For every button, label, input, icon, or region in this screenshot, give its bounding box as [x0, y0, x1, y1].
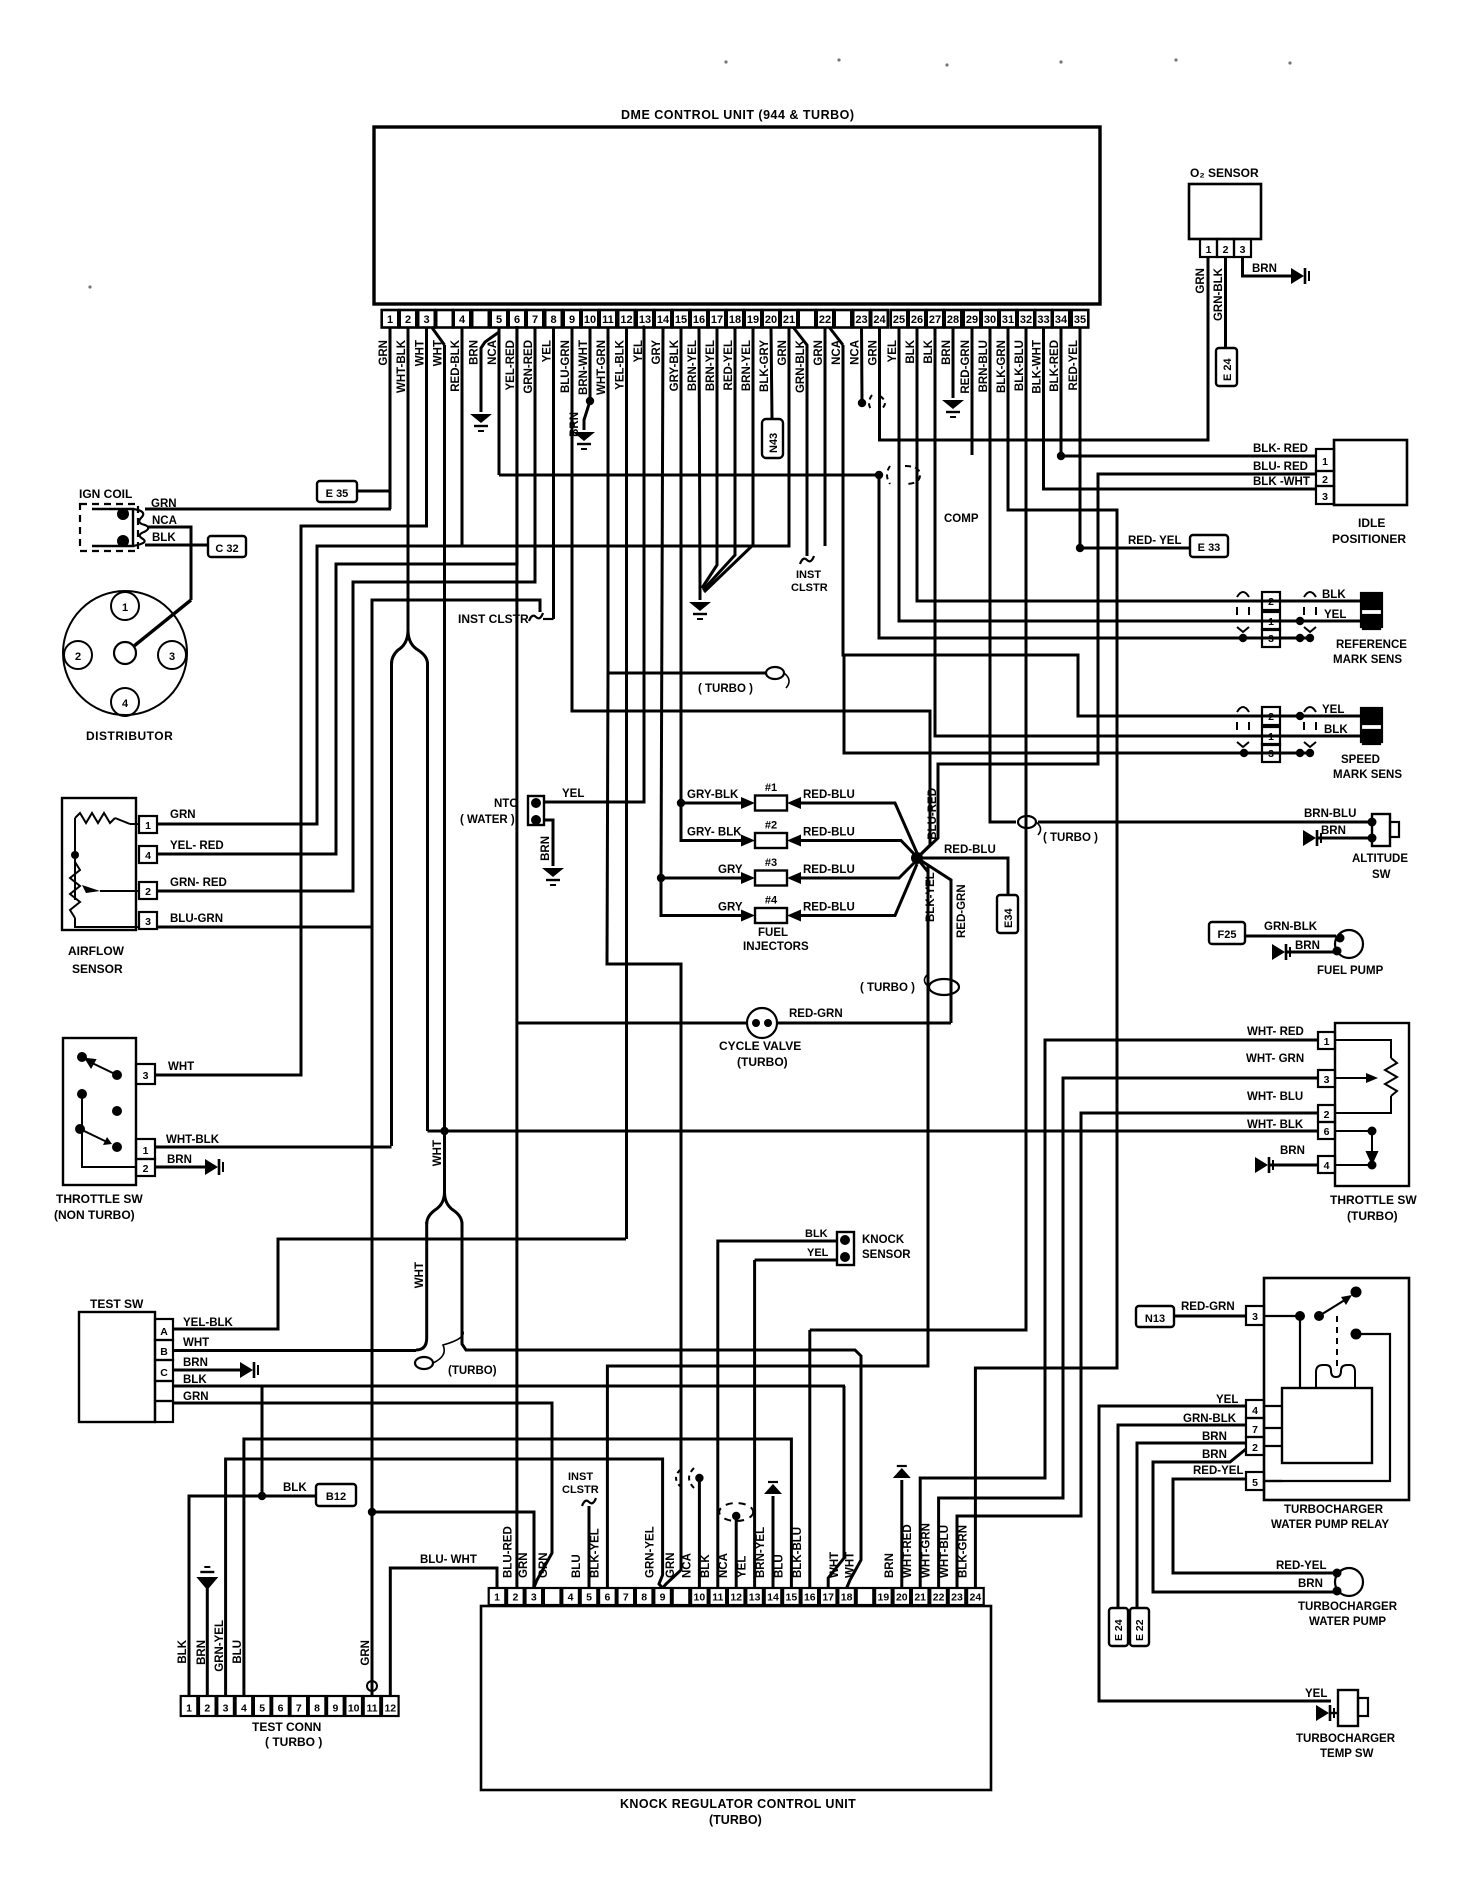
distributor rotor contact 4 [111, 688, 139, 716]
wire NCA to dashed connector COMP [499, 474, 876, 477]
svg-text:( WATER ): ( WATER ) [460, 814, 515, 826]
svg-text:E 33: E 33 [1198, 542, 1221, 554]
svg-text:GRN: GRN [868, 340, 880, 366]
svg-text:3: 3 [145, 916, 151, 928]
relay pin 3 box [1246, 1306, 1264, 1325]
svg-text:RED-BLU: RED-BLU [803, 864, 855, 876]
svg-text:IGN COIL: IGN COIL [79, 487, 132, 501]
shield symbols [1237, 707, 1249, 712]
svg-text:13: 13 [749, 1592, 761, 1604]
svg-text:GRY-BLK: GRY-BLK [669, 339, 681, 391]
small circle on pin 11 riser [367, 1681, 377, 1691]
svg-text:NCA: NCA [681, 1553, 693, 1578]
throttle switch upper contacts [77, 1052, 87, 1062]
wire BLK branch down to B12 [262, 1386, 316, 1496]
svg-text:BRN: BRN [884, 1553, 896, 1578]
wire DME pin 25 YEL to reference mark sensor [899, 327, 1300, 621]
svg-text:YEL: YEL [1305, 1688, 1327, 1700]
svg-text:BLU- RED: BLU- RED [1253, 461, 1308, 473]
wire DME pin 6 YEL-RED down to airflow sensor pin 4 [157, 327, 517, 854]
turbo throttle pin 1 [1318, 1032, 1335, 1049]
svg-text:11: 11 [712, 1592, 723, 1604]
svg-text:YEL-RED: YEL-RED [505, 340, 517, 390]
svg-text:2: 2 [1324, 1109, 1330, 1121]
star junction of injector wires [911, 852, 923, 864]
wire WHT-BLK left branch down to non-turbo throttle [390, 662, 393, 1146]
dashed arc at pin 23 connector [869, 395, 872, 411]
svg-text:GRN-YEL: GRN-YEL [214, 1620, 226, 1672]
svg-text:11: 11 [602, 314, 614, 326]
wire DME pin 30 BRN-BLU down to altitude switch with turbo break [990, 327, 1016, 822]
throttle pin 1 box [136, 1139, 155, 1159]
wire WHT left branch to test switch B with turbo break [425, 1222, 428, 1338]
svg-text:NCA: NCA [487, 340, 499, 365]
svg-text:7: 7 [296, 1703, 302, 1715]
wire altitude BRN-BLU segment [1038, 821, 1372, 824]
wire knock pin 6 BLK-YEL riser from 1366 run [607, 866, 928, 1588]
svg-text:WHT: WHT [414, 1262, 426, 1288]
IDLE POSITIONER box [1334, 440, 1407, 505]
wire knock pin 5 INST CLSTR stub [588, 1506, 591, 1588]
wire DME pin 18 RED-YEL diagonal to common ground [703, 327, 735, 590]
svg-text:1: 1 [186, 1703, 192, 1715]
turbo throttle internal resistor [1335, 1040, 1391, 1058]
svg-text:(TURBO): (TURBO) [737, 1055, 788, 1069]
svg-text:BRN: BRN [1298, 1578, 1323, 1590]
wire DME pin 33 BLK-WHT down to idle positioner pin 3 [1044, 327, 1317, 489]
svg-text:RED-BLU: RED-BLU [944, 844, 996, 856]
wire DME pin 7 GRN-RED down to airflow sensor pin 2 [157, 327, 535, 891]
svg-text:WHT-BLK: WHT-BLK [166, 1134, 220, 1146]
svg-text:YEL-BLK: YEL-BLK [183, 1317, 234, 1329]
DME control unit box [374, 127, 1100, 304]
svg-text:(NON TURBO): (NON TURBO) [54, 1208, 135, 1222]
svg-text:TEST CONN: TEST CONN [252, 1720, 321, 1734]
idle pin 3 [1316, 486, 1334, 504]
svg-text:12: 12 [384, 1703, 396, 1715]
wire turbo throttle pin 4 BRN ground [1270, 1164, 1318, 1167]
svg-text:GRN-RED: GRN-RED [523, 340, 535, 394]
svg-text:31: 31 [1002, 314, 1014, 326]
wire WHT-BLK right branch down to turbo throttle [426, 662, 429, 1131]
svg-text:RED-BLU: RED-BLU [803, 827, 855, 839]
svg-text:MARK SENS: MARK SENS [1333, 654, 1402, 666]
wire knock sensor BLK to knock pin 11 [718, 1241, 837, 1588]
wire DME pin 22 GRN down [824, 327, 827, 546]
svg-text:BLK-BLU: BLK-BLU [1014, 340, 1026, 391]
wire test BLK long run to knock pin 17 riser [173, 1385, 845, 1388]
wire altitude BRN to ground [1318, 837, 1372, 840]
svg-text:WHT: WHT [845, 1552, 857, 1578]
svg-text:SW: SW [1372, 869, 1391, 881]
svg-text:RED-YEL: RED-YEL [1068, 340, 1080, 390]
svg-text:BLK-YEL: BLK-YEL [589, 1528, 601, 1578]
svg-text:1: 1 [1322, 456, 1328, 468]
test sw pin B [155, 1340, 173, 1360]
svg-text:1: 1 [494, 1592, 500, 1604]
wire coil NCA to distributor rotor [147, 527, 191, 600]
svg-text:WHT-BLK: WHT-BLK [396, 339, 408, 393]
svg-text:1: 1 [1268, 616, 1274, 628]
svg-text:8: 8 [641, 1592, 647, 1604]
svg-text:GRY: GRY [718, 864, 743, 876]
svg-text:5: 5 [496, 314, 502, 326]
svg-text:19: 19 [747, 314, 759, 326]
airflow pin 4 [139, 846, 157, 863]
svg-text:5: 5 [586, 1592, 592, 1604]
wire RED-BLU from star to E34 [917, 858, 1008, 895]
svg-text:6: 6 [1324, 1126, 1330, 1138]
shield symbols [1237, 592, 1249, 597]
svg-text:WHT: WHT [168, 1061, 194, 1073]
svg-text:O₂ SENSOR: O₂ SENSOR [1190, 166, 1259, 180]
svg-text:RED-BLU: RED-BLU [803, 902, 855, 914]
connector N43 box [762, 419, 783, 458]
svg-text:BRN-WHT: BRN-WHT [578, 340, 590, 395]
svg-text:REFERENCE: REFERENCE [1336, 639, 1407, 651]
relay switch contacts [1264, 1315, 1300, 1317]
O2 pins 1 2 3 [1200, 239, 1217, 257]
svg-text:21: 21 [914, 1592, 926, 1604]
svg-text:25: 25 [893, 314, 905, 326]
svg-text:23: 23 [855, 314, 867, 326]
svg-text:BLK: BLK [177, 1639, 189, 1663]
svg-text:CYCLE VALVE: CYCLE VALVE [719, 1039, 801, 1053]
svg-text:WHT-GRN: WHT-GRN [921, 1523, 933, 1578]
svg-text:22: 22 [819, 314, 831, 326]
svg-text:RED-YEL: RED-YEL [723, 340, 735, 390]
svg-text:2: 2 [405, 314, 411, 326]
svg-text:GRN-BLK: GRN-BLK [1213, 267, 1225, 321]
svg-text:GRN- RED: GRN- RED [170, 877, 227, 889]
svg-text:3: 3 [143, 1070, 149, 1082]
wire throttle pin1 WHT-BLK to riser [155, 1146, 392, 1149]
svg-text:BRN: BRN [1252, 263, 1277, 275]
svg-text:GRN-BLK: GRN-BLK [1264, 921, 1318, 933]
wire test A YEL-BLK up and right [173, 1239, 626, 1329]
svg-text:YEL: YEL [542, 340, 554, 362]
wire DME pin 34 BLK-RED down to idle positioner pin 1 and knock pin 22 riser [1060, 327, 1063, 456]
TEST SW box [79, 1312, 155, 1422]
turbo throttle pin 2 [1318, 1105, 1335, 1122]
svg-text:BLK: BLK [805, 1228, 828, 1240]
svg-text:GRN: GRN [518, 1552, 530, 1578]
scan speck left [88, 285, 91, 288]
wire DME pin 16 BRN-YEL down to common ground [699, 327, 700, 585]
AIRFLOW SENSOR box [62, 798, 136, 930]
svg-text:8: 8 [314, 1703, 320, 1715]
tap from test conn 11 riser to knock pin 2/3 [372, 1512, 534, 1588]
svg-text:KNOCK REGULATOR CONTROL UNIT: KNOCK REGULATOR CONTROL UNIT [620, 1797, 856, 1811]
svg-text:E 22: E 22 [1134, 1619, 1146, 1641]
svg-text:BRN-YEL: BRN-YEL [755, 1527, 767, 1578]
svg-text:INJECTORS: INJECTORS [743, 941, 809, 953]
svg-text:INST: INST [796, 569, 821, 581]
fuel injector #1 [755, 796, 787, 811]
svg-text:AIRFLOW: AIRFLOW [68, 944, 125, 958]
wire RED-YEL tap to E33 [1080, 547, 1190, 550]
test sw pin A [155, 1319, 173, 1340]
svg-text:BRN-YEL: BRN-YEL [687, 340, 699, 391]
throttle internal wire pin2 [82, 1094, 136, 1167]
airflow pin 1 [139, 816, 157, 833]
turbo throttle pin 6 [1318, 1122, 1335, 1139]
svg-text:BLU: BLU [773, 1554, 785, 1578]
svg-text:YEL: YEL [1322, 704, 1344, 716]
injector feed wires left [681, 802, 741, 805]
wire DME pin 35 RED-YEL down with E33 tap and to knock pin 23 [1079, 327, 1082, 548]
svg-text:3: 3 [223, 1703, 229, 1715]
svg-text:THROTTLE SW: THROTTLE SW [56, 1192, 143, 1206]
wire DME pin 19 BRN-YEL diagonal to common ground [704, 327, 753, 592]
svg-text:B: B [160, 1346, 168, 1358]
svg-text:BLK-BLU: BLK-BLU [792, 1527, 804, 1578]
svg-text:9: 9 [569, 314, 575, 326]
INST CLSTR fork right [800, 556, 814, 564]
wire knock pin 10 NCA stub with dashed connector [698, 1478, 701, 1588]
svg-text:10: 10 [348, 1703, 360, 1715]
svg-text:2: 2 [204, 1703, 210, 1715]
wire connector to sensor [1280, 715, 1366, 718]
svg-text:12: 12 [730, 1592, 742, 1604]
svg-text:10: 10 [584, 314, 596, 326]
wire relay pin 2 BRN to E22 [1137, 1443, 1246, 1608]
svg-text:NCA: NCA [152, 515, 177, 527]
svg-text:BLK: BLK [1322, 589, 1346, 601]
wire turbo throttle pin 6 WHT-BLK long run [428, 1130, 1319, 1133]
wire knock pin 17 WHT riser [828, 1386, 844, 1588]
svg-text:BLK-GRN: BLK-GRN [957, 1525, 969, 1578]
relay coil winding symbol [1316, 1365, 1336, 1388]
svg-text:27: 27 [929, 314, 941, 326]
svg-text:C 32: C 32 [215, 543, 238, 555]
svg-text:21: 21 [783, 314, 795, 326]
wire BLK branch to test conn pin 1 [189, 1496, 262, 1696]
svg-text:4: 4 [1252, 1405, 1258, 1417]
svg-text:6: 6 [604, 1592, 610, 1604]
svg-text:YEL: YEL [737, 1556, 749, 1578]
svg-text:GRN: GRN [1195, 268, 1207, 294]
svg-text:4: 4 [122, 698, 129, 710]
test sw blank pins [155, 1381, 173, 1401]
svg-text:14: 14 [767, 1592, 779, 1604]
wire DME pin 4 RED-BLK down [461, 327, 464, 546]
wire knock pin 12 NCA stub with dashed ellipse [735, 1516, 738, 1588]
wire F25 GRN-BLK to fuel pump [1245, 935, 1336, 938]
svg-text:32: 32 [1020, 314, 1032, 326]
wire BLK-YEL star branch down to knock run [917, 858, 928, 872]
wire DME pin 1 GRN down to ign coil / E35 [389, 327, 392, 509]
TEST CONN pin row 1-12 [181, 1696, 198, 1716]
svg-text:NCA: NCA [850, 340, 862, 365]
airflow pin 2 [139, 882, 157, 899]
wire coil GRN to E35 riser [145, 508, 391, 511]
wire vertical 844 to speed sensor third wire [844, 655, 1300, 753]
svg-text:2: 2 [75, 651, 81, 663]
svg-text:13: 13 [639, 314, 651, 326]
svg-text:FUEL PUMP: FUEL PUMP [1317, 965, 1384, 977]
knock regulator connector pin row 1-24 [489, 1588, 506, 1605]
svg-text:THROTTLE SW: THROTTLE SW [1330, 1193, 1417, 1207]
svg-text:2: 2 [1268, 596, 1274, 608]
wire DME pin 26 BLK to reference mark sensor [917, 327, 1366, 601]
svg-text:1: 1 [1206, 244, 1212, 256]
relay coil box [1282, 1388, 1372, 1463]
svg-text:BLU-GRN: BLU-GRN [170, 913, 223, 925]
test sw pin C [155, 1360, 173, 1381]
wire DME pin 11 WHT-GRN down to turbo stub and on to knock unit pin 9 [608, 327, 766, 673]
svg-text:E 35: E 35 [326, 488, 349, 500]
svg-text:BLK: BLK [923, 339, 935, 363]
svg-text:2: 2 [512, 1592, 518, 1604]
wire test conn pin 2 BRN from ground [206, 1588, 209, 1696]
airflow internal bottom wire [75, 918, 139, 927]
svg-text:BRN: BRN [1280, 1145, 1305, 1157]
throttle pin 2 box [136, 1159, 155, 1176]
svg-text:6: 6 [278, 1703, 284, 1715]
throttle switch middle contacts [77, 1089, 87, 1099]
wire pin 11 continues down via jog to knock pin 9 GRN [607, 673, 681, 1588]
wire connector to sensor [1280, 600, 1366, 603]
svg-text:BRN-YEL: BRN-YEL [705, 340, 717, 391]
svg-text:GRN: GRN [360, 1640, 372, 1666]
svg-text:4: 4 [1324, 1160, 1330, 1172]
airflow wiper arrow [82, 885, 100, 893]
svg-text:1: 1 [1268, 731, 1274, 743]
distributor rotor contact 3 [158, 641, 186, 669]
wire O2 pin 2 GRN-BLK to E24 [1224, 257, 1227, 348]
wire knock pin 14 BRN-YEL stub with upward ground [772, 1496, 775, 1588]
connector N13 box [1136, 1306, 1174, 1327]
svg-text:YEL- RED: YEL- RED [170, 840, 224, 852]
svg-text:TURBOCHARGER: TURBOCHARGER [1284, 1504, 1384, 1516]
svg-text:30: 30 [984, 314, 996, 326]
svg-text:24: 24 [873, 314, 886, 326]
svg-text:C: C [160, 1367, 168, 1379]
svg-text:YEL: YEL [1324, 609, 1346, 621]
wire test GRN to knock pin 3 [173, 1403, 552, 1588]
dashed connector arcs at COMP [887, 466, 890, 484]
svg-text:GRN-BLK: GRN-BLK [1183, 1413, 1237, 1425]
svg-text:3: 3 [1324, 1074, 1330, 1086]
TURBOCHARGER WATER PUMP circle [1335, 1568, 1363, 1596]
svg-text:CLSTR: CLSTR [562, 1484, 599, 1496]
REFERENCE sensor body [1363, 595, 1380, 609]
svg-text:4: 4 [241, 1703, 247, 1715]
svg-text:CLSTR: CLSTR [791, 582, 828, 594]
svg-text:BRN: BRN [1295, 940, 1320, 952]
turbo connector circle on WHT branch [415, 1357, 433, 1369]
wire DME pin 24 GRN down and right to O2 sensor pin 1 [880, 257, 1209, 440]
THROTTLE SW turbo box [1335, 1023, 1409, 1186]
svg-text:33: 33 [1037, 314, 1049, 326]
svg-text:(TURBO): (TURBO) [709, 1813, 762, 1827]
distributor rotor contact 2 [64, 641, 92, 669]
wire test conn pin 3 GRN-YEL riser [226, 1459, 663, 1696]
wire BLU-RED from idle positioner to star [917, 474, 1316, 858]
svg-text:GRN: GRN [665, 1552, 677, 1578]
svg-text:WHT-GRN: WHT-GRN [596, 340, 608, 395]
svg-text:NCA: NCA [718, 1553, 730, 1578]
turbo connector circle on pin 11 stub [766, 667, 784, 679]
svg-text:GRN: GRN [777, 340, 789, 366]
svg-text:POSITIONER: POSITIONER [1332, 532, 1406, 546]
svg-text:BRN-YEL: BRN-YEL [741, 340, 753, 391]
svg-text:DISTRIBUTOR: DISTRIBUTOR [86, 729, 173, 743]
svg-text:GRN: GRN [183, 1391, 209, 1403]
svg-text:GRY: GRY [651, 340, 663, 365]
wire DME pin 23 NCA stub to dashed connector [860, 327, 864, 400]
svg-text:KNOCK: KNOCK [862, 1234, 905, 1246]
svg-text:RED-YEL: RED-YEL [1276, 1560, 1326, 1572]
wire relay pin 4 YEL to temp switch riser [1099, 1406, 1331, 1701]
svg-text:WHT: WHT [183, 1337, 209, 1349]
svg-text:4: 4 [568, 1592, 574, 1604]
scan specks top [837, 58, 840, 61]
svg-text:17: 17 [822, 1592, 834, 1604]
connector F25 box [1209, 922, 1245, 944]
svg-text:RED-BLU: RED-BLU [803, 789, 855, 801]
svg-text:#4: #4 [765, 895, 778, 907]
svg-text:2: 2 [143, 1163, 149, 1175]
svg-text:BLK: BLK [183, 1374, 207, 1386]
airflow internal potentiometer zigzag [70, 862, 80, 918]
wire cycle valve RED-GRN [777, 1022, 951, 1025]
THROTTLE SW non-turbo box [63, 1038, 136, 1185]
wire relay pin 2 BRN branch to water pump [1153, 1449, 1336, 1592]
turbo throttle pin4 internal [1335, 1164, 1372, 1166]
svg-text:1: 1 [122, 602, 128, 614]
throttle switch lower contacts [75, 1124, 85, 1134]
svg-text:BRN: BRN [569, 412, 581, 437]
airflow pin 3 [139, 912, 157, 929]
svg-text:#1: #1 [765, 782, 777, 794]
svg-text:22: 22 [933, 1592, 945, 1604]
svg-text:BLU- WHT: BLU- WHT [420, 1554, 477, 1566]
svg-text:BRN: BRN [1321, 825, 1346, 837]
svg-text:5: 5 [259, 1703, 265, 1715]
wire coil BLK to C32 [145, 544, 208, 547]
svg-text:N13: N13 [1145, 1313, 1165, 1325]
wire relay pin 5 RED-YEL to water pump [1173, 1479, 1336, 1573]
svg-text:TURBOCHARGER: TURBOCHARGER [1296, 1733, 1396, 1745]
svg-text:17: 17 [711, 314, 723, 326]
svg-text:GRN: GRN [813, 340, 825, 366]
wire cycle valve left side [516, 1022, 747, 1025]
svg-text:RED-GRN: RED-GRN [789, 1008, 843, 1020]
svg-text:N43: N43 [768, 433, 780, 453]
svg-text:( TURBO ): ( TURBO ) [1043, 832, 1098, 844]
svg-text:2: 2 [1322, 474, 1328, 486]
svg-text:GRN-BLK: GRN-BLK [795, 339, 807, 393]
svg-text:(TURBO): (TURBO) [448, 1365, 497, 1377]
svg-text:GRN: GRN [378, 340, 390, 366]
svg-text:IDLE: IDLE [1358, 516, 1385, 530]
connector E24 box [1216, 348, 1237, 386]
svg-text:3: 3 [1252, 1311, 1258, 1323]
relay pin 2 box [1246, 1437, 1264, 1455]
connector E24 box bottom [1109, 1608, 1128, 1646]
fuel pump circle [1335, 930, 1363, 958]
DME connector pin row 1-35 [382, 310, 399, 328]
wire DME pin 13 YEL down to NTC water sensor [545, 327, 645, 802]
turbo ellipse on cycle valve wire [929, 979, 959, 995]
svg-text:E34: E34 [1003, 908, 1015, 928]
wire RED-GRN from star down through turbo ellipse to cycle valve [917, 858, 951, 1023]
TURBOCHARGER WATER PUMP RELAY outer box [1264, 1278, 1409, 1500]
wire DME pin 27 BLK to speed mark sensor [935, 327, 1366, 736]
svg-text:19: 19 [878, 1592, 890, 1604]
